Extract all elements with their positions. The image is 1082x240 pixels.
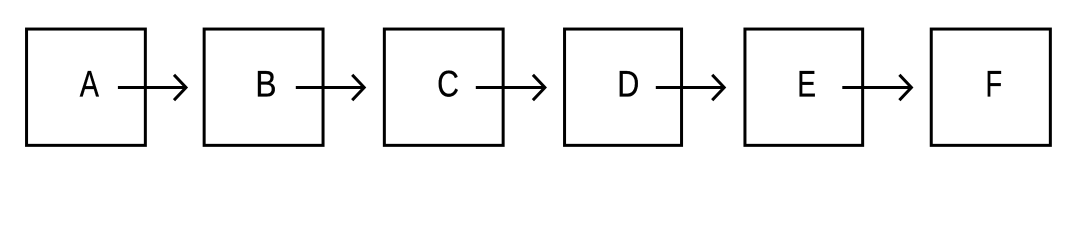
svg-text:B: B — [255, 64, 276, 105]
svg-text:F: F — [986, 64, 1003, 105]
svg-text:D: D — [617, 64, 639, 105]
svg-text:A: A — [80, 64, 100, 105]
svg-text:E: E — [797, 64, 816, 105]
svg-text:C: C — [437, 64, 459, 105]
